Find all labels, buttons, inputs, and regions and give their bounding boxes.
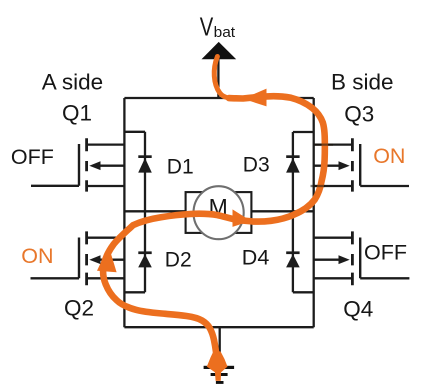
- svg-text:D4: D4: [242, 246, 270, 270]
- svg-text:Q1: Q1: [62, 100, 92, 125]
- svg-text:Q4: Q4: [343, 297, 373, 322]
- svg-text:D1: D1: [167, 156, 194, 179]
- svg-text:A side: A side: [42, 70, 103, 95]
- svg-text:D3: D3: [243, 154, 270, 177]
- svg-text:Q2: Q2: [64, 296, 94, 321]
- svg-text:bat: bat: [214, 24, 236, 41]
- svg-text:D2: D2: [165, 248, 192, 271]
- svg-text:V: V: [200, 14, 214, 42]
- svg-text:B side: B side: [331, 70, 394, 95]
- svg-text:OFF: OFF: [11, 145, 54, 169]
- svg-text:ON: ON: [373, 144, 405, 168]
- svg-text:ON: ON: [21, 244, 53, 268]
- svg-text:OFF: OFF: [364, 240, 407, 264]
- svg-text:Q3: Q3: [344, 101, 374, 126]
